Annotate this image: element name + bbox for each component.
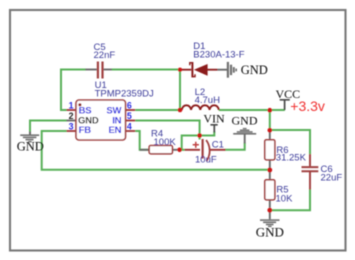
svg-text:10uF: 10uF: [195, 155, 217, 166]
svg-text:GND: GND: [241, 63, 268, 77]
svg-text:B230A-13-F: B230A-13-F: [193, 50, 244, 61]
svg-text:31.25K: 31.25K: [276, 152, 307, 163]
svg-text:GND: GND: [256, 225, 284, 240]
svg-text:2: 2: [69, 111, 74, 121]
svg-text:FB: FB: [79, 125, 92, 136]
svg-text:22nF: 22nF: [94, 50, 116, 61]
svg-text:6: 6: [127, 100, 132, 110]
svg-text:1: 1: [69, 100, 74, 110]
svg-text:4.7uH: 4.7uH: [195, 95, 220, 106]
svg-text:5: 5: [127, 111, 132, 121]
svg-text:100K: 100K: [154, 137, 177, 148]
svg-text:EN: EN: [108, 125, 121, 136]
svg-text:GND: GND: [232, 114, 258, 128]
svg-text:4: 4: [127, 121, 132, 131]
svg-text:+3.3v: +3.3v: [290, 98, 325, 114]
svg-text:3: 3: [69, 121, 74, 131]
svg-text:10K: 10K: [276, 194, 294, 205]
svg-text:TPMP2359DJ: TPMP2359DJ: [95, 89, 154, 100]
svg-text:VIN: VIN: [203, 112, 225, 126]
svg-text:C1: C1: [212, 140, 224, 151]
svg-text:GND: GND: [17, 140, 44, 154]
svg-text:22uF: 22uF: [321, 173, 343, 184]
